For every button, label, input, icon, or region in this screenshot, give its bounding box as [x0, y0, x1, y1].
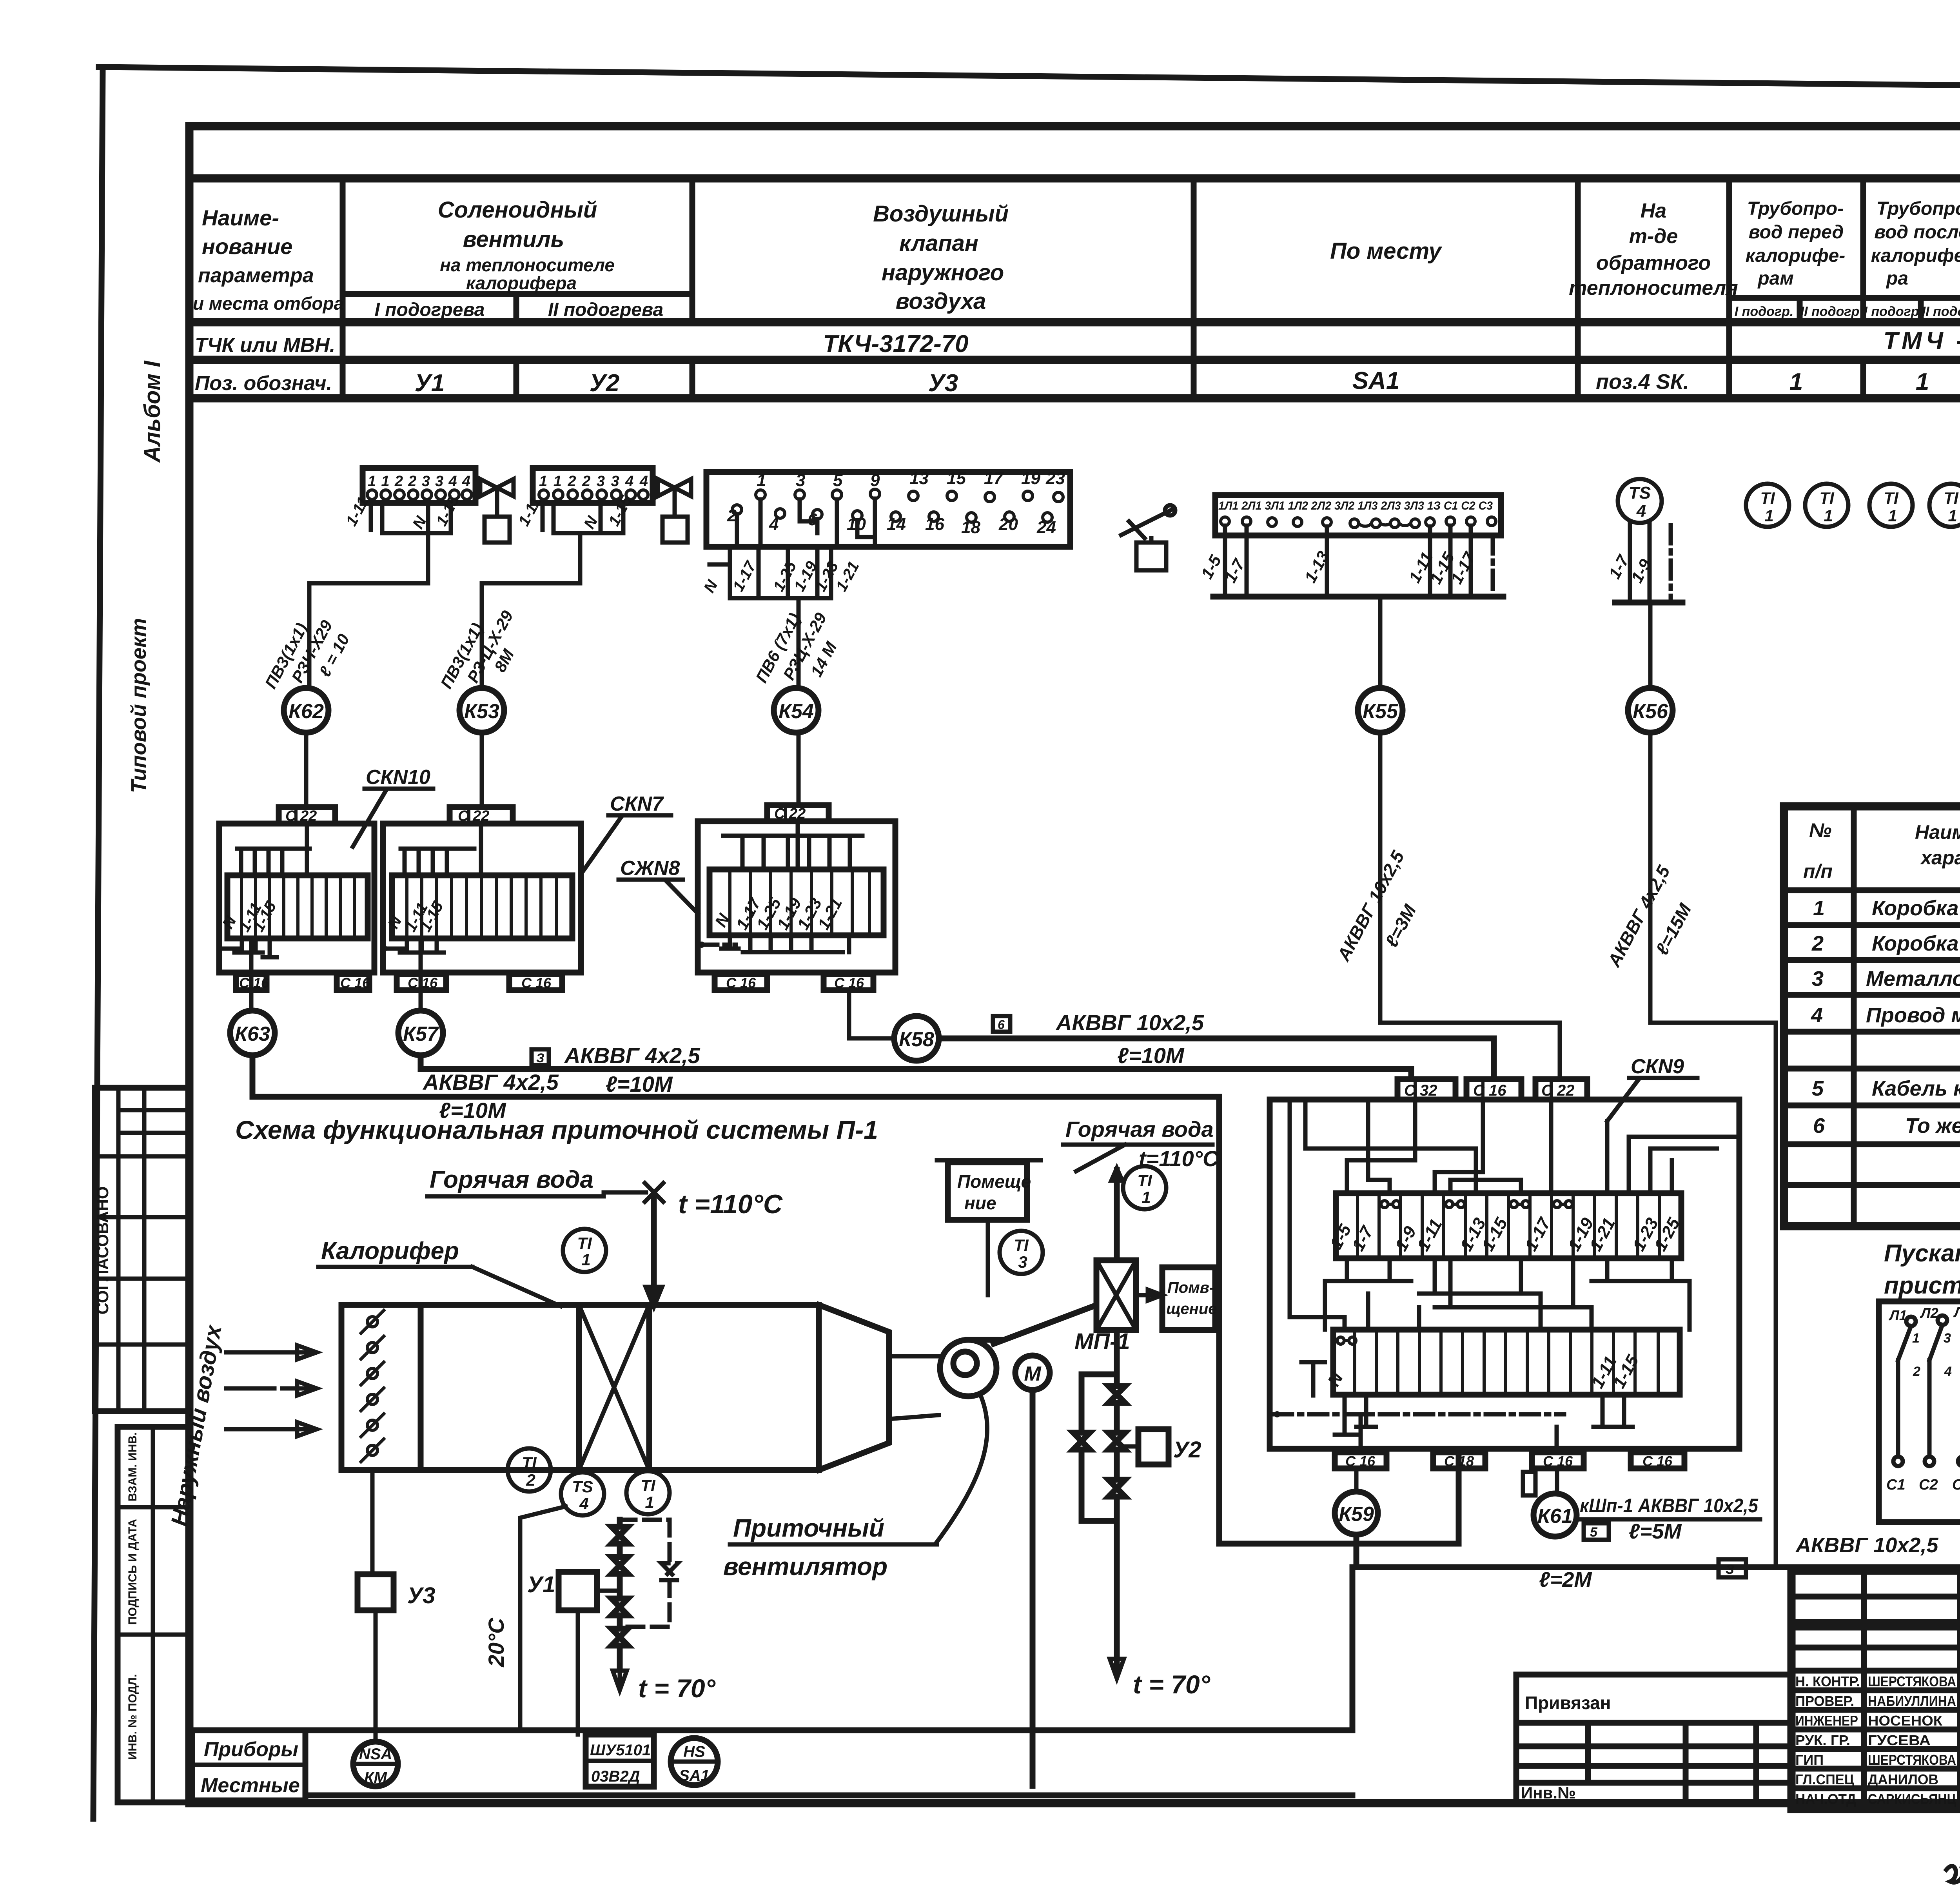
svg-text:Трубопро: Трубопро [1877, 198, 1960, 219]
svg-text:II подогр: II подогр [1800, 304, 1860, 319]
svg-text:наружного: наружного [882, 260, 1004, 285]
svg-text:Привязан: Привязан [1525, 1693, 1611, 1713]
svg-text:С 16: С 16 [1642, 1453, 1673, 1469]
cable K54 to SKN8 [797, 733, 801, 805]
svg-text:1 1 2 2 3 3 4 4: 1 1 2 2 3 3 4 4 [368, 473, 470, 490]
svg-text:5: 5 [833, 471, 843, 490]
svg-text:ПРОВЕР.: ПРОВЕР. [1795, 1693, 1854, 1709]
svg-text:воздуха: воздуха [896, 289, 986, 314]
svg-text:20°С: 20°С [484, 1617, 508, 1668]
MAIN TABLE GRID [189, 178, 1960, 398]
label SKN10 [353, 766, 433, 847]
supply fan label [723, 1514, 937, 1580]
cable label PV3 K62 [261, 617, 353, 691]
svg-text:У3: У3 [407, 1583, 436, 1608]
svg-text:9: 9 [870, 471, 880, 490]
svg-text:ТКЧ-3172-70: ТКЧ-3172-70 [823, 330, 968, 357]
AHU damper section [341, 1305, 421, 1470]
wire C16 to K63 [249, 960, 254, 1011]
cable label PV3 K53 [437, 607, 517, 691]
svg-text:К63: К63 [235, 1023, 270, 1045]
svg-text:То же: То же [1905, 1114, 1960, 1138]
outside air arrows [226, 1345, 317, 1436]
box C16 left of SKN7 [397, 974, 446, 991]
svg-text:С 16: С 16 [408, 975, 438, 991]
fan to label leader curve [936, 1394, 987, 1542]
svg-text:АКВВГ 10х2,5: АКВВГ 10х2,5 [1795, 1533, 1938, 1557]
svg-text:Металлорукав Ф22 ТУ22-2173-71: Металлорукав Ф22 ТУ22-2173-71 [1866, 967, 1960, 991]
cable K55 to C22 of SKN9 [1333, 733, 1560, 1079]
valve chain dashed bypass [620, 1520, 678, 1627]
inner frame [189, 126, 1960, 1803]
svg-text:Наименование и техническая: Наименование и техническая [1915, 821, 1960, 843]
svg-text:ТЧК или МВН.: ТЧК или МВН. [195, 334, 335, 357]
svg-text:2: 2 [1913, 1364, 1920, 1379]
solenoid valve symbol Y1 [480, 479, 514, 543]
connection box SKN8 [698, 821, 895, 973]
wire C16 to K58 [849, 990, 894, 1038]
svg-text:Местные: Местные [201, 1774, 300, 1797]
svg-text:На: На [1641, 200, 1666, 222]
relay box PML [1879, 1301, 1960, 1522]
svg-text:СКN7: СКN7 [610, 793, 664, 815]
instrument circle TI1 hot water [563, 1229, 606, 1272]
svg-text:АКВВГ 4х2,5: АКВВГ 4х2,5 [422, 1070, 559, 1094]
junction circle K53 [459, 688, 504, 733]
instrument circle TI2 [508, 1448, 551, 1492]
svg-text:С 22: С 22 [1541, 1082, 1575, 1099]
svg-text:1: 1 [1948, 506, 1957, 525]
svg-text:1: 1 [1142, 1188, 1151, 1207]
svg-text:2: 2 [1811, 932, 1824, 955]
hot water label right [1063, 1117, 1219, 1171]
svg-text:С1: С1 [1886, 1477, 1906, 1493]
box C16 bottom4 of SKN9 [1631, 1452, 1684, 1469]
svg-text:ℓ=2М: ℓ=2М [1539, 1568, 1592, 1591]
svg-text:обратного: обратного [1596, 252, 1711, 274]
instruments rail box [192, 1567, 1352, 1802]
svg-text:М: М [1024, 1363, 1042, 1385]
svg-text:23: 23 [1045, 469, 1065, 488]
svg-text:5: 5 [1812, 1077, 1824, 1100]
svg-text:3: 3 [1812, 967, 1824, 991]
svg-text:теплоносителя: теплоносителя [1569, 277, 1738, 299]
svg-text:1: 1 [1912, 1331, 1920, 1346]
svg-text:К59: К59 [1339, 1503, 1374, 1526]
svg-text:1: 1 [645, 1493, 654, 1512]
svg-text:Альбом I: Альбом I [140, 360, 165, 463]
svg-text:С3: С3 [1952, 1477, 1960, 1493]
svg-text:С 16: С 16 [1473, 1082, 1506, 1099]
svg-text:НОСЕНОК: НОСЕНОК [1868, 1713, 1943, 1729]
junction circle K59 [1335, 1492, 1378, 1535]
svg-text:нование: нование [202, 234, 292, 259]
svg-text:4: 4 [1636, 501, 1646, 521]
svg-text:СКN10: СКN10 [366, 766, 430, 789]
svg-text:СКN9: СКN9 [1631, 1055, 1684, 1078]
room box upper [937, 1160, 1041, 1295]
junction circle K57 [398, 1011, 443, 1055]
terminal block XT-SA1 [1215, 495, 1501, 535]
relay pole L2 [1919, 1305, 1952, 1493]
svg-text:З: З [1726, 1562, 1734, 1577]
wire from XT-U3 to K54 [797, 598, 801, 688]
svg-text:1: 1 [757, 471, 766, 490]
svg-text:КМ: КМ [364, 1769, 388, 1786]
connection box SKN7 [382, 824, 581, 973]
svg-text:t =110°С: t =110°С [678, 1189, 783, 1219]
svg-text:К53: К53 [464, 700, 499, 723]
box C16 right of SKN8 [824, 974, 873, 991]
svg-text:С 16: С 16 [726, 975, 756, 991]
svg-text:щение: щение [1166, 1300, 1217, 1317]
control box ShU5101 [586, 1735, 654, 1787]
cable K56 down right side [1603, 733, 1776, 1567]
svg-text:t = 70°: t = 70° [1133, 1670, 1210, 1699]
svg-text:калорифе-: калорифе- [1871, 245, 1960, 266]
svg-text:II подогр: II подогр [1922, 304, 1960, 319]
svg-text:ПОДПИСЬ И ДАТА: ПОДПИСЬ И ДАТА [126, 1519, 139, 1625]
svg-text:К54: К54 [779, 700, 814, 723]
svg-text:Приточный: Приточный [733, 1514, 884, 1542]
table row Poz values [415, 367, 1960, 397]
svg-text:ГУСЕВА: ГУСЕВА [1868, 1732, 1931, 1748]
parts table rows text [1811, 896, 1960, 1141]
svg-text:6: 6 [998, 1018, 1005, 1032]
handwritten marks bottom [1946, 1866, 1960, 1883]
svg-text:NSA: NSA [359, 1746, 392, 1763]
svg-text:3: 3 [1018, 1253, 1027, 1271]
svg-text:По месту: По месту [1330, 238, 1443, 264]
terminal block XT-U3 air damper [701, 469, 1070, 598]
table header col1 [193, 205, 344, 395]
svg-text:Н. КОНТР.: Н. КОНТР. [1795, 1673, 1860, 1689]
svg-text:У2: У2 [1173, 1437, 1201, 1463]
svg-text:К56: К56 [1633, 700, 1668, 723]
svg-text:TI: TI [1014, 1236, 1029, 1254]
svg-text:TS: TS [572, 1477, 593, 1496]
svg-text:ВЗАМ. ИНВ.: ВЗАМ. ИНВ. [126, 1432, 139, 1502]
svg-text:1: 1 [1888, 506, 1897, 525]
arrow HX to room [1136, 1290, 1162, 1301]
motor wire down [1030, 1390, 1036, 1786]
wire from XT-U1 to K62 [309, 533, 428, 688]
svg-text:Инв.№: Инв.№ [1521, 1784, 1576, 1802]
heat exchanger X [1096, 1260, 1136, 1330]
svg-text:ℓ=10М: ℓ=10М [1117, 1043, 1185, 1068]
svg-text:АКВВГ 4х2,5: АКВВГ 4х2,5 [564, 1043, 701, 1068]
sheet outer border left [93, 67, 103, 1819]
svg-text:ШЕРСТЯКОВА: ШЕРСТЯКОВА [1868, 1752, 1956, 1768]
svg-text:4: 4 [1944, 1364, 1952, 1379]
svg-text:TI: TI [1819, 489, 1835, 507]
box C22 top of SKN9 [1535, 1079, 1587, 1100]
bottom cable bus to relay [1356, 1522, 1960, 1591]
svg-text:№: № [1809, 819, 1831, 841]
svg-text:С 18: С 18 [1444, 1453, 1474, 1469]
svg-text:параметра: параметра [198, 264, 314, 287]
sidebar approval grid [93, 1088, 189, 1411]
table header col5 [1569, 200, 1738, 299]
svg-text:С 32: С 32 [1404, 1082, 1437, 1099]
instrument circle NSA/KM [353, 1742, 398, 1786]
table row TChK values [823, 327, 1960, 357]
svg-text:У2: У2 [590, 370, 619, 397]
svg-text:вентилятор: вентилятор [723, 1552, 887, 1580]
svg-text:Помв-: Помв- [1167, 1279, 1214, 1296]
svg-text:TI: TI [577, 1234, 592, 1252]
svg-text:t = 70°: t = 70° [638, 1674, 716, 1703]
svg-text:SA1: SA1 [1352, 367, 1400, 394]
wire TS4 to K56 [1648, 602, 1653, 688]
room box right [1162, 1267, 1217, 1330]
svg-text:приставкой ПКЛ 2204: приставкой ПКЛ 2204 [1884, 1272, 1960, 1299]
svg-text:СЖN8: СЖN8 [620, 857, 680, 880]
svg-text:вод после: вод после [1874, 222, 1960, 243]
damper limit switch symbol [1121, 505, 1175, 570]
svg-text:I подогр.: I подогр. [1735, 304, 1794, 319]
svg-text:Кабель контрольный: Кабель контрольный [1872, 1077, 1960, 1100]
svg-text:К62: К62 [289, 700, 324, 723]
connection box SKN9 outer [1270, 1100, 1739, 1449]
svg-text:TI: TI [1137, 1171, 1152, 1190]
svg-text:калорифе-: калорифе- [1746, 245, 1846, 266]
svg-text:ние: ние [964, 1193, 996, 1213]
relay pole L1 [1886, 1307, 1920, 1493]
svg-text:ра: ра [1886, 268, 1908, 289]
connection box SKN10 [218, 824, 374, 973]
svg-text:на теплоносителе: на теплоносителе [440, 255, 615, 275]
cable K53 to SKN7 [480, 733, 484, 807]
svg-text:I подогр: I подогр [1864, 304, 1919, 319]
box C16 left of SKN8 [715, 974, 767, 991]
svg-text:Соленоидный: Соленоидный [438, 197, 597, 223]
svg-text:Схема функциональная приточ: Схема функциональная приточной системы П… [235, 1115, 878, 1144]
t70 arrow left [613, 1669, 716, 1703]
svg-text:TS: TS [1629, 483, 1651, 503]
svg-text:TI: TI [522, 1453, 537, 1472]
box C16 top of SKN9 [1466, 1079, 1521, 1100]
wire C16 to K57 [419, 960, 423, 1011]
motor circle M [1015, 1329, 1130, 1390]
svg-text:С 16: С 16 [1345, 1453, 1376, 1469]
svg-text:Трубопро-: Трубопро- [1747, 198, 1844, 219]
svg-text:19: 19 [1021, 469, 1040, 488]
svg-text:У1: У1 [415, 370, 445, 397]
svg-text:К61: К61 [1537, 1505, 1573, 1528]
SKN9 upper terminal strip [1327, 1193, 1684, 1258]
svg-text:клапан: клапан [899, 230, 978, 256]
junction circle K58 [894, 1016, 939, 1061]
svg-text:К58: К58 [899, 1028, 934, 1051]
svg-text:вентиль: вентиль [463, 227, 564, 252]
svg-text:2: 2 [526, 1471, 535, 1489]
svg-text:и места отбора: и места отбора [193, 293, 344, 314]
svg-text:НАБИУЛЛИНА: НАБИУЛЛИНА [1868, 1693, 1956, 1709]
label SKN7 [581, 793, 671, 874]
box C22 of SKN8 [767, 805, 829, 822]
AHU outlet cone [819, 1305, 889, 1470]
box C22 of SKN7 [450, 807, 513, 824]
svg-text:ШУ5101: ШУ5101 [590, 1742, 651, 1759]
svg-text:1: 1 [1789, 368, 1803, 396]
junction circle K55 [1358, 688, 1403, 733]
box C16 bottom3 of SKN9 [1532, 1452, 1584, 1469]
svg-text:С 16: С 16 [340, 975, 370, 991]
svg-text:АКВВГ 10х2,5: АКВВГ 10х2,5 [1055, 1010, 1204, 1035]
svg-text:3: 3 [796, 471, 805, 490]
svg-text:6: 6 [1813, 1114, 1825, 1138]
relay pole L3 [1952, 1304, 1960, 1493]
svg-text:17: 17 [984, 469, 1004, 488]
box C16 left of SKN10 [236, 974, 269, 991]
wire from XT-U2 to K53 [482, 533, 580, 688]
svg-text:Горячая вода: Горячая вода [1065, 1117, 1214, 1141]
svg-text:TI: TI [1760, 489, 1775, 507]
solenoid valve symbol Y2 [658, 479, 691, 543]
SKN9 feeder wires top [1305, 1100, 1739, 1193]
svg-text:1: 1 [1764, 506, 1773, 525]
title block personnel rows [1795, 1673, 1956, 1807]
svg-text:К57: К57 [403, 1023, 439, 1045]
hot water pipe right [1112, 1170, 1121, 1260]
svg-text:Л2: Л2 [1920, 1305, 1938, 1321]
svg-text:HS: HS [683, 1743, 705, 1760]
instrument circles TI row [1746, 484, 1960, 527]
table header col7 [1864, 198, 1960, 319]
wire C16 to K59 [1354, 1468, 1359, 1492]
svg-text:1: 1 [1916, 368, 1929, 396]
relay title text [1884, 1240, 1960, 1299]
svg-text:ШЕРСТЯКОВА: ШЕРСТЯКОВА [1868, 1673, 1956, 1689]
wire TS4 down [520, 1506, 566, 1730]
instrument circle TS4 [561, 1472, 604, 1515]
svg-text:5: 5 [1590, 1525, 1598, 1540]
instrument circle HS/SA1 [671, 1738, 718, 1785]
svg-text:1Л1 2Л1 3Л1 1Л2 2Л2 3Л2 1Л3 2Л: 1Л1 2Л1 3Л1 1Л2 2Л2 3Л2 1Л3 2Л3 3Л3 1З С… [1218, 499, 1493, 512]
svg-text:Коробка соединительная: Коробка соединительная [1872, 932, 1960, 955]
svg-text:4: 4 [1811, 1003, 1823, 1027]
svg-text:1: 1 [1824, 506, 1833, 525]
wire C16 to K61 [1555, 1468, 1559, 1493]
svg-text:II подогрева: II подогрева [548, 299, 663, 320]
instrument circle TI1 duct [626, 1471, 670, 1514]
table header col3 air valve [873, 201, 1009, 314]
svg-text:калорифера: калорифера [466, 273, 577, 293]
svg-text:К55: К55 [1363, 700, 1398, 723]
parts list table [1784, 806, 1960, 1226]
svg-text:характеристика изделия,: характеристика изделия, [1920, 847, 1960, 869]
svg-text:НАЧ.ОТД: НАЧ.ОТД [1795, 1791, 1856, 1807]
junction circle K56 [1628, 688, 1673, 733]
svg-text:15: 15 [947, 469, 966, 488]
heating valve chain [612, 1520, 628, 1669]
svg-text:4: 4 [579, 1494, 588, 1513]
SA1 drop wires [1197, 526, 1503, 597]
svg-text:I подогрева: I подогрева [375, 299, 485, 320]
pipe below HX with valves [1073, 1330, 1210, 1699]
svg-text:TI: TI [1944, 489, 1959, 507]
duct from fan to heat exchanger [994, 1306, 1094, 1344]
svg-text:поз.4 SК.: поз.4 SК. [1596, 370, 1689, 394]
svg-text:РУК. ГР.: РУК. ГР. [1795, 1732, 1850, 1748]
cable label PV6 K54 [752, 610, 840, 686]
box C16 right of SKN10 [337, 974, 370, 991]
svg-text:САРКИСЬЯНЦ: САРКИСЬЯНЦ [1868, 1791, 1956, 1807]
svg-text:Калорифер: Калорифер [321, 1238, 459, 1265]
svg-text:ТМЧ - 144 - 75: ТМЧ - 144 - 75 [1883, 327, 1960, 354]
label kShp-1 cable [1578, 1495, 1760, 1543]
cable bus K57 AKVVG 4x2.5 [421, 1043, 1411, 1096]
svg-text:Л3: Л3 [1953, 1304, 1960, 1320]
wire SA1 to K55 [1378, 597, 1383, 688]
junction circle K61 [1534, 1493, 1577, 1537]
svg-text:рам: рам [1757, 268, 1794, 289]
main title block [1791, 1571, 1960, 1809]
label SKN9 [1607, 1055, 1697, 1121]
svg-text:3: 3 [1944, 1331, 1951, 1346]
table header col2 solenoid valve [375, 197, 664, 320]
terminal block XT-U1 [343, 468, 475, 533]
supply fan [889, 1340, 1002, 1419]
cable K62 to SKN10 [304, 733, 309, 807]
svg-text:Типовой проект: Типовой проект [127, 618, 151, 793]
svg-text:Воздушный: Воздушный [873, 201, 1009, 227]
svg-text:З: З [536, 1051, 544, 1065]
svg-text:С 16: С 16 [239, 975, 269, 991]
svg-text:Провод медный сечением 1 кв.: Провод медный сечением 1 кв. мм [1866, 1003, 1960, 1027]
svg-text:У3: У3 [928, 370, 958, 397]
title block attachment table [1516, 1675, 1791, 1802]
terminal block XT-U2 [515, 468, 653, 533]
junction circle K54 [774, 688, 818, 733]
svg-text:ℓ=5М: ℓ=5М [1629, 1520, 1682, 1543]
label SKN8 [619, 857, 698, 913]
svg-text:1: 1 [581, 1250, 590, 1269]
svg-text:1: 1 [1813, 896, 1825, 920]
box C16 bottom1 of SKN9 [1335, 1452, 1387, 1469]
sidebar lower stamp strip [118, 1427, 189, 1802]
instrument circle TI3 [1000, 1231, 1043, 1274]
svg-text:т-де: т-де [1629, 225, 1678, 248]
solenoid U2 square [1125, 1429, 1201, 1464]
junction circle K62 [284, 688, 328, 733]
svg-text:Пускатель К(ПМЛ 110004) с: Пускатель К(ПМЛ 110004) с [1884, 1240, 1960, 1267]
svg-text:У1: У1 [527, 1572, 555, 1597]
kalorifer label [318, 1238, 561, 1306]
parts table header texts [1803, 818, 1960, 891]
svg-text:13: 13 [909, 469, 929, 488]
svg-text:Наиме-: Наиме- [202, 205, 279, 230]
svg-text:TI: TI [1884, 489, 1899, 507]
hot water label left [427, 1166, 783, 1305]
svg-text:Коробка соединительная: Коробка соединительная [1872, 896, 1960, 920]
box C16 right of SKN7 [509, 974, 562, 991]
svg-text:Поз. обознач.: Поз. обознач. [195, 372, 332, 395]
cable marker rect at K61 [1523, 1472, 1535, 1495]
solenoid U3 square [358, 1470, 436, 1742]
cable bus K58 AKVVG 10x2.5 [939, 1010, 1494, 1079]
sheet outer border top [99, 67, 1960, 91]
SKN9 lower terminal strip [1324, 1330, 1680, 1395]
svg-text:СОГЛАСОВАНО: СОГЛАСОВАНО [93, 1187, 112, 1315]
svg-text:TI: TI [641, 1476, 656, 1495]
svg-text:1 1 2 2 3 3 4 4: 1 1 2 2 3 3 4 4 [539, 473, 648, 490]
junction circle K63 [230, 1011, 275, 1055]
svg-text:С2: С2 [1919, 1477, 1938, 1493]
svg-text:ИНВ. № ПОДЛ.: ИНВ. № ПОДЛ. [126, 1674, 139, 1760]
SKN9 lower strip bottom wires [1274, 1395, 1633, 1452]
